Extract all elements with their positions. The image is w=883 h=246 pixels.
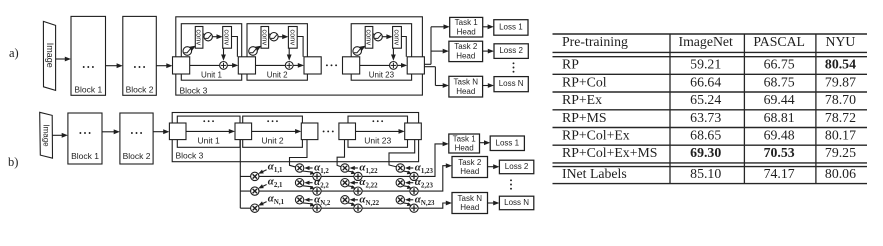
multiplier circle alpha_2,1 xyxy=(251,187,259,195)
svg-text:Block 1: Block 1 xyxy=(74,84,102,94)
arrow alpha label to multiplier 1,1 xyxy=(261,170,266,173)
relu circle 2 Unit 2 xyxy=(270,33,278,41)
svg-text:Loss 1: Loss 1 xyxy=(496,138,520,147)
svg-text:Head: Head xyxy=(460,167,479,176)
connector times to plus col2 row2 xyxy=(302,186,313,187)
relu circle 1 Unit 1 xyxy=(183,47,192,56)
svg-text:1,2: 1,2 xyxy=(320,168,329,175)
svg-text:Loss N: Loss N xyxy=(499,79,524,88)
svg-text:Image: Image xyxy=(42,124,51,147)
svg-text:1,23: 1,23 xyxy=(421,168,434,175)
adder circle col23 rowN xyxy=(410,204,418,212)
row line taskN b) xyxy=(240,203,448,208)
connector times to plus col23 row2 xyxy=(403,186,410,187)
adder circle Unit 1 xyxy=(220,62,228,70)
adder circle col22 rowN xyxy=(354,204,362,212)
arrow relu1 to conv1 Unit 1 xyxy=(191,47,193,50)
svg-text:Head: Head xyxy=(456,52,475,61)
svg-text:Head: Head xyxy=(455,144,474,153)
unit box Unit 23 b) xyxy=(348,116,408,147)
connector times to plus col2 row1 xyxy=(302,171,313,172)
connector times to plus col23 rowN xyxy=(403,203,410,204)
block 3 box a) xyxy=(176,17,423,95)
svg-text:65.24: 65.24 xyxy=(690,92,721,107)
multiplier circle alpha_1,23 xyxy=(396,164,404,172)
svg-text:1,22: 1,22 xyxy=(366,168,379,175)
svg-text:Loss N: Loss N xyxy=(504,198,529,207)
svg-text:68.81: 68.81 xyxy=(764,110,795,125)
svg-text:Unit 2: Unit 2 xyxy=(267,71,288,80)
relu circle 1 Unit 2 xyxy=(249,47,258,56)
table top rule xyxy=(553,33,868,35)
arrow taskN to lossN a) xyxy=(483,85,490,87)
svg-text:59.21: 59.21 xyxy=(690,57,721,72)
svg-text:78.72: 78.72 xyxy=(825,110,856,125)
riser2 a) xyxy=(434,67,436,86)
svg-text:74.17: 74.17 xyxy=(764,166,795,181)
wire conv1 to relu2 Unit 23 xyxy=(373,34,375,35)
conv box 1 Unit 1 xyxy=(195,27,203,49)
table row rule 5 xyxy=(553,144,868,146)
svg-text:RP+Col+Ex+MS: RP+Col+Ex+MS xyxy=(562,145,657,160)
table row rule 2 xyxy=(553,91,868,93)
conv box 2 Unit 2 xyxy=(288,27,297,49)
row line task2 b) xyxy=(240,166,448,191)
arrow relu1 to conv1 Unit 2 xyxy=(256,47,258,50)
task N head box b) xyxy=(452,193,488,214)
svg-text:85.10: 85.10 xyxy=(690,166,721,181)
arrow alpha label to multiplier N,22 xyxy=(353,199,358,201)
multiplier circle alpha_N,1 xyxy=(251,204,259,212)
arrow adder to next square Unit 23 xyxy=(398,64,403,66)
arrow alpha label to multiplier 1,2 xyxy=(308,167,313,169)
relu circle 2 Unit 23 xyxy=(374,33,382,41)
block 1 b) xyxy=(68,113,102,164)
relu circle 1 Unit 23 xyxy=(353,47,362,56)
svg-text:Block 3: Block 3 xyxy=(176,150,204,160)
unit box Unit 2 a) xyxy=(247,24,307,80)
svg-text:80.17: 80.17 xyxy=(825,127,856,142)
svg-text:RP+Col+Ex: RP+Col+Ex xyxy=(562,127,630,142)
svg-text:conv: conv xyxy=(223,29,232,45)
svg-text:Unit 23: Unit 23 xyxy=(369,71,395,80)
conv box 1 Unit 23 xyxy=(365,27,373,49)
row line task1 b) xyxy=(240,144,444,177)
image parallelogram b) xyxy=(40,112,53,158)
squares b) xyxy=(169,123,186,140)
image parallelogram a) xyxy=(43,21,55,90)
arrow adder to next square Unit 1 xyxy=(228,64,234,66)
svg-text:Image: Image xyxy=(45,43,55,68)
arrow alpha label to multiplier 2,1 xyxy=(261,185,266,188)
svg-text:2,23: 2,23 xyxy=(421,183,434,190)
table mid double rule xyxy=(553,162,868,164)
task 1 head box a) xyxy=(450,17,483,37)
svg-text:Unit 1: Unit 1 xyxy=(198,135,220,145)
svg-text:Pre-training: Pre-training xyxy=(562,34,628,49)
svg-text:79.87: 79.87 xyxy=(825,74,856,89)
svg-text:78.70: 78.70 xyxy=(825,92,856,107)
arrow alpha label to multiplier 2,2 xyxy=(308,182,313,184)
drop from s2 to col2 b) xyxy=(290,140,308,168)
adder circle col23 row1 xyxy=(410,172,418,180)
wire square to adder Unit 2 xyxy=(256,64,286,66)
adder circle col23 row2 xyxy=(410,187,418,195)
connector times to plus col22 row2 xyxy=(347,186,354,187)
loss 2 box b) xyxy=(499,160,533,174)
wire conv2 to next square Unit 1 xyxy=(232,37,238,57)
svg-text:Unit 1: Unit 1 xyxy=(201,71,222,80)
svg-text:70.53: 70.53 xyxy=(764,145,795,160)
squares a) xyxy=(173,57,190,74)
svg-text:RP+Col: RP+Col xyxy=(562,74,607,89)
arrow relu2 to conv2 Unit 23 xyxy=(382,36,388,38)
arrow task2 to loss2 a) xyxy=(483,50,490,52)
table column separators xyxy=(669,34,671,184)
wire conv2 to next square Unit 23 xyxy=(401,37,406,57)
svg-text:63.73: 63.73 xyxy=(690,110,721,125)
wire block1 to block2 a) xyxy=(106,65,119,67)
svg-text:2,1: 2,1 xyxy=(274,182,283,189)
svg-text:conv: conv xyxy=(195,29,204,45)
svg-text:a): a) xyxy=(9,46,19,60)
arrow alpha label to multiplier 1,22 xyxy=(353,167,358,169)
block 2 a) xyxy=(123,16,157,95)
svg-text:2,2: 2,2 xyxy=(320,183,329,190)
svg-text:Head: Head xyxy=(460,203,479,212)
arrow alpha label to multiplier 2,23 xyxy=(409,182,414,184)
svg-text:N,1: N,1 xyxy=(274,199,285,206)
wire block2 to block3 b) xyxy=(153,131,165,133)
dots between units b) xyxy=(323,130,334,132)
wire block1 to block2 b) xyxy=(102,131,115,133)
connector times to plus col2 rowN xyxy=(302,203,313,204)
loss N box a) xyxy=(494,77,528,92)
svg-text:80.06: 80.06 xyxy=(825,166,856,181)
task N head box a) xyxy=(449,76,483,97)
drop from s23 to col4 b) xyxy=(389,140,415,167)
adder circle Unit 23 xyxy=(390,62,398,70)
arrow relu2 to conv2 Unit 2 xyxy=(278,36,284,38)
svg-text:69.30: 69.30 xyxy=(690,145,721,160)
svg-text:conv: conv xyxy=(393,29,402,45)
arrow conv2 down to adder Unit 2 xyxy=(288,48,290,56)
svg-text:PASCAL: PASCAL xyxy=(753,34,805,49)
svg-text:Task 1: Task 1 xyxy=(455,18,479,27)
connector times to plus col23 row1 xyxy=(403,171,410,172)
svg-text:conv: conv xyxy=(365,29,374,45)
svg-text:N,2: N,2 xyxy=(320,200,331,207)
relu circle 2 Unit 1 xyxy=(204,33,212,41)
arrow relu1 to conv1 Unit 23 xyxy=(360,47,362,50)
svg-text:69.48: 69.48 xyxy=(764,127,795,142)
arrow task1 to loss1 b) xyxy=(480,142,486,144)
multiplier circle alpha_N,2 xyxy=(295,196,303,204)
arrow alpha label to multiplier N,1 xyxy=(261,202,266,205)
dots between units a) xyxy=(326,64,337,66)
arrow to taskN head a) xyxy=(435,85,444,87)
svg-text:Task 1: Task 1 xyxy=(453,134,477,143)
svg-text:66.75: 66.75 xyxy=(764,57,795,72)
svg-text:ImageNet: ImageNet xyxy=(678,34,733,49)
block 1 a) xyxy=(71,16,106,95)
svg-text:Task N: Task N xyxy=(454,77,479,86)
svg-text:Block 2: Block 2 xyxy=(126,84,154,94)
svg-text:Task N: Task N xyxy=(458,194,483,203)
arrow to task1 head a) xyxy=(431,26,445,28)
multiplier circle alpha_N,22 xyxy=(341,196,349,204)
svg-text:Head: Head xyxy=(457,27,476,36)
task 1 head box b) xyxy=(449,134,480,153)
arrow to task2 head a) xyxy=(431,50,444,52)
arrow task2 to loss2 b) xyxy=(488,166,495,168)
svg-text:Unit 23: Unit 23 xyxy=(364,135,391,145)
arrow alpha label to multiplier N,23 xyxy=(409,199,414,201)
loss N box b) xyxy=(499,196,533,210)
drop from s1 to rows b) xyxy=(239,140,241,209)
svg-text:Loss 2: Loss 2 xyxy=(499,46,523,55)
table row rule 3 xyxy=(553,109,868,111)
svg-text:b): b) xyxy=(8,155,18,169)
svg-text:Block 3: Block 3 xyxy=(180,86,208,96)
svg-text:Unit 2: Unit 2 xyxy=(261,135,283,145)
wire image to block1 a) xyxy=(56,58,67,60)
svg-text:69.44: 69.44 xyxy=(764,92,795,107)
connector times to plus col22 row1 xyxy=(347,171,354,172)
arrow task1 to loss1 a) xyxy=(483,26,490,28)
block 3 box b) xyxy=(172,113,418,162)
svg-text:Loss 2: Loss 2 xyxy=(505,162,529,171)
table row rule 4 xyxy=(553,127,868,129)
drop from s22 to col3 b) xyxy=(337,140,344,167)
wire conv2 to next square Unit 2 xyxy=(297,37,303,57)
svg-text:2,22: 2,22 xyxy=(366,183,379,190)
unit box Unit 1 a) xyxy=(181,24,241,80)
conv box 2 Unit 23 xyxy=(393,27,402,49)
arrow alpha label to multiplier 1,23 xyxy=(409,167,414,169)
multiplier circle alpha_1,2 xyxy=(295,164,303,172)
svg-text:68.65: 68.65 xyxy=(690,127,721,142)
svg-text:79.25: 79.25 xyxy=(825,145,856,160)
svg-text:INet Labels: INet Labels xyxy=(562,166,627,181)
multiplier circle alpha_N,23 xyxy=(396,196,404,204)
svg-text:1,1: 1,1 xyxy=(274,167,283,174)
svg-text:Block 1: Block 1 xyxy=(71,151,99,161)
vertical dots b) xyxy=(510,179,512,189)
multiplier circle alpha_1,22 xyxy=(341,164,349,172)
svg-text:66.64: 66.64 xyxy=(690,74,721,89)
wire square to adder Unit 1 xyxy=(190,64,220,66)
connector times to plus col22 rowN xyxy=(347,203,354,204)
svg-text:Task 2: Task 2 xyxy=(458,158,482,167)
multiplier circle alpha_1,1 xyxy=(251,172,259,180)
table header double rule xyxy=(553,51,868,53)
loss 1 box a) xyxy=(494,20,528,36)
task 2 head box a) xyxy=(449,41,483,61)
svg-text:N,23: N,23 xyxy=(421,200,435,207)
conv box 1 Unit 2 xyxy=(261,27,269,49)
adder circle col22 row2 xyxy=(354,187,362,195)
arrow conv2 down to adder Unit 1 xyxy=(223,48,225,56)
svg-text:N,22: N,22 xyxy=(366,200,380,207)
adder circle col2 rowN xyxy=(313,204,321,212)
loss 2 box a) xyxy=(494,44,528,59)
svg-text:RP: RP xyxy=(562,57,579,72)
wire conv1 to relu2 Unit 2 xyxy=(269,34,271,35)
svg-text:NYU: NYU xyxy=(825,34,855,49)
riser1 a) xyxy=(430,27,432,65)
wire conv1 to relu2 Unit 1 xyxy=(203,34,205,35)
arrow taskN to lossN b) xyxy=(488,202,495,204)
adder circle col2 row2 xyxy=(313,187,321,195)
stub square to riser1 a) xyxy=(424,63,431,65)
adder circle col22 row1 xyxy=(354,172,362,180)
unit box Unit 1 b) xyxy=(177,116,240,147)
svg-text:Task 2: Task 2 xyxy=(454,42,478,51)
arrow relu2 to conv2 Unit 1 xyxy=(212,36,218,38)
loss 1 box b) xyxy=(490,136,524,151)
multiplier circle alpha_2,23 xyxy=(396,179,404,187)
svg-text:conv: conv xyxy=(288,29,297,45)
block 2 b) xyxy=(120,113,153,164)
svg-text:Head: Head xyxy=(456,87,475,96)
wire image to block1 b) xyxy=(52,134,63,136)
table row rule 1 xyxy=(553,73,868,75)
multiplier circle alpha_2,22 xyxy=(341,179,349,187)
svg-text:RP+MS: RP+MS xyxy=(562,110,607,125)
wire square to adder Unit 23 xyxy=(360,64,390,66)
unit box Unit 2 b) xyxy=(243,116,303,147)
svg-text:80.54: 80.54 xyxy=(825,57,856,72)
wire s0 to s1 b) xyxy=(186,130,231,132)
adder circle Unit 2 xyxy=(285,62,293,70)
wire block2 to block3 a) xyxy=(156,65,168,67)
svg-text:Loss 1: Loss 1 xyxy=(499,22,523,31)
arrow adder to next square Unit 2 xyxy=(293,64,299,66)
conv box 2 Unit 1 xyxy=(223,27,232,49)
wire s1 to s2 b) xyxy=(252,130,297,132)
svg-text:RP+Ex: RP+Ex xyxy=(562,92,602,107)
table bottom rule xyxy=(553,183,868,185)
svg-text:Block 2: Block 2 xyxy=(123,151,151,161)
unit box Unit 23 a) xyxy=(351,24,411,80)
wire s22 to s23 b) xyxy=(356,130,401,132)
multiplier circle alpha_2,2 xyxy=(295,179,303,187)
adder circle col2 row1 xyxy=(313,172,321,180)
arrow alpha label to multiplier N,2 xyxy=(308,199,313,201)
vertical dots a) xyxy=(513,62,515,72)
stub square to riser2 a) xyxy=(424,66,435,68)
task 2 head box b) xyxy=(452,157,488,178)
arrow alpha label to multiplier 2,22 xyxy=(353,182,358,184)
svg-text:conv: conv xyxy=(260,29,269,45)
arrow conv2 down to adder Unit 23 xyxy=(392,48,394,56)
svg-text:68.75: 68.75 xyxy=(764,74,795,89)
